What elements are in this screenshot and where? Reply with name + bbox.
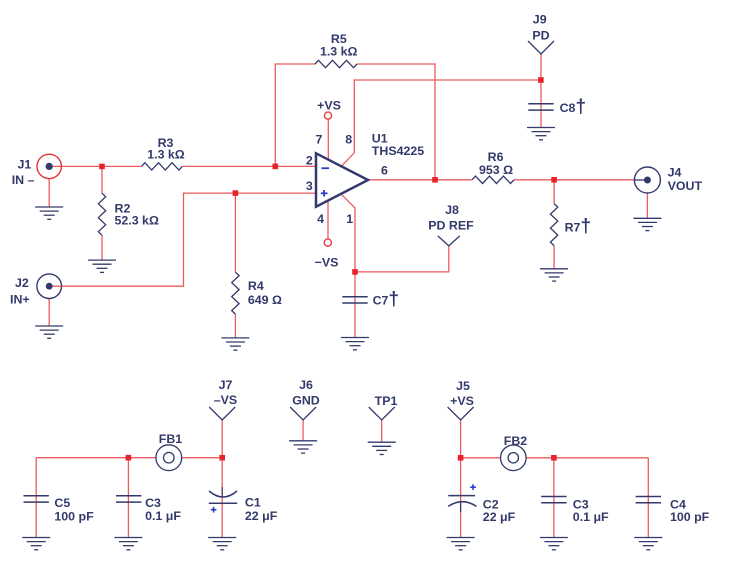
svg-text:VOUT: VOUT	[668, 179, 703, 193]
wire J9 node through C8 to ground	[540, 80, 542, 128]
svg-text:52.3 kΩ: 52.3 kΩ	[115, 214, 159, 228]
svg-text:J6: J6	[299, 378, 313, 392]
junction node J1/R2/R3	[99, 164, 105, 170]
wire J5 stub to +VS rail	[460, 420, 462, 458]
wire J7 stub to -VS rail	[221, 420, 223, 458]
wire J1 to R3 (inverting input net)	[52, 165, 142, 167]
wire J4 ground stub	[646, 193, 648, 218]
svg-text:100 pF: 100 pF	[54, 510, 94, 524]
svg-text:PD REF: PD REF	[428, 219, 474, 233]
op-amp U1 THS4225	[316, 153, 368, 206]
wire C4 leg	[647, 458, 649, 538]
svg-text:1.3 kΩ: 1.3 kΩ	[147, 148, 185, 162]
capacitor C5 100 pF	[24, 496, 49, 502]
ground below J2	[35, 326, 63, 338]
junction node rail/J7/C1	[219, 455, 225, 461]
ground below J1	[35, 207, 63, 219]
wire J6 ground stub	[302, 420, 304, 441]
wire C2 leg	[460, 458, 462, 538]
ground below TP1	[368, 442, 396, 454]
ferrite bead FB2	[501, 445, 527, 471]
wire C1 leg	[221, 458, 223, 538]
capacitor C3 0.1 uF right	[541, 497, 566, 503]
wire J9 stub	[540, 54, 542, 80]
junction node rail/C3 right	[551, 455, 557, 461]
svg-text:R6: R6	[488, 150, 504, 164]
capacitor C4 100 pF	[636, 497, 661, 503]
ground below C4	[634, 538, 662, 550]
capacitor C3 0.1 uF left	[116, 496, 141, 502]
ground below C2	[447, 538, 475, 550]
wire J8 to pin 1 node	[355, 246, 449, 272]
resistor R3 1.3 k	[142, 163, 183, 170]
wire C3 left leg	[127, 458, 129, 538]
svg-text:22 μF: 22 μF	[245, 509, 278, 523]
svg-text:+VS: +VS	[450, 394, 474, 408]
svg-text:J5: J5	[456, 379, 470, 393]
wire -VS rail right of FB1	[182, 457, 223, 459]
resistor R6 953	[472, 176, 514, 183]
wire R5 to output node	[357, 64, 435, 180]
ferrite bead FB1	[156, 445, 182, 471]
resistor R4 649	[232, 272, 239, 314]
svg-text:–VS: –VS	[214, 393, 237, 407]
connector J7 -VS header	[209, 407, 235, 420]
wire R4 to ground	[234, 314, 236, 338]
svg-text:−VS: −VS	[315, 256, 339, 270]
junction node pin1/J8/C7	[352, 269, 358, 275]
wire R3 to op-amp pin 2	[182, 165, 316, 167]
svg-text:+VS: +VS	[317, 99, 341, 113]
wire -VS rail left of FB1	[36, 457, 156, 459]
svg-text:1: 1	[346, 212, 353, 226]
wire feedback left leg to R5	[275, 64, 315, 166]
wire op-amp pin 1 through C7 to ground	[342, 195, 355, 338]
ground below J4	[633, 218, 661, 230]
wire TP1 ground stub	[381, 420, 383, 442]
-VS supply pad	[324, 239, 331, 246]
wire +VS rail left of FB2	[461, 457, 501, 459]
svg-text:1.3 kΩ: 1.3 kΩ	[320, 45, 358, 59]
capacitor C2 22 uF polarized	[448, 495, 475, 497]
+VS supply pad	[324, 112, 331, 119]
wire J2 ground stub	[48, 299, 50, 326]
svg-text:IN+: IN+	[10, 293, 30, 307]
svg-text:C5: C5	[54, 496, 70, 510]
connector J1 IN-	[37, 154, 61, 178]
svg-text:4: 4	[317, 212, 324, 226]
junction node rail/C3 left	[126, 455, 132, 461]
ground below C3 right	[540, 538, 568, 550]
capacitor C8	[528, 104, 553, 110]
ground below J6	[289, 441, 317, 453]
wire R7 to ground	[553, 246, 555, 269]
svg-text:FB1: FB1	[159, 432, 183, 446]
ground below C5	[22, 538, 50, 550]
svg-text:C1: C1	[245, 496, 261, 510]
svg-text:C8†: C8†	[560, 97, 586, 118]
svg-text:PD: PD	[532, 29, 549, 43]
svg-text:7: 7	[316, 133, 323, 147]
wire op-amp pin 8 to J9/C8 node	[342, 80, 541, 166]
svg-text:22 μF: 22 μF	[483, 510, 516, 524]
svg-text:649 Ω: 649 Ω	[248, 293, 282, 307]
test point TP1	[369, 407, 395, 420]
svg-text:0.1 μF: 0.1 μF	[145, 509, 181, 523]
svg-text:8: 8	[345, 133, 352, 147]
junction node R5/output	[432, 177, 438, 183]
junction node pin3/R4	[233, 190, 239, 196]
svg-text:953 Ω: 953 Ω	[479, 163, 513, 177]
svg-text:J9: J9	[533, 13, 547, 27]
ground below C3 left	[114, 538, 142, 550]
wire op-amp pin 4 to -VS pad	[327, 200, 329, 239]
junction node feedback tap	[273, 164, 279, 170]
svg-text:0.1 μF: 0.1 μF	[573, 510, 609, 524]
resistor R7	[550, 204, 557, 246]
connector J9 PD	[528, 41, 554, 54]
svg-text:J4: J4	[668, 166, 682, 180]
ground below C7	[341, 338, 369, 350]
capacitor C7	[342, 297, 367, 303]
wire node B to R4	[234, 193, 236, 272]
wire node A to R2	[101, 166, 103, 193]
svg-text:6: 6	[381, 164, 388, 178]
wire J1 ground stub	[48, 179, 50, 207]
svg-text:J2: J2	[15, 276, 29, 290]
wire J2 to op-amp pin 3 (non-inverting input net)	[52, 193, 316, 286]
svg-text:R7†: R7†	[565, 216, 591, 237]
svg-text:2: 2	[306, 153, 313, 167]
wire R2 to ground	[101, 235, 103, 260]
ground below R2	[88, 260, 116, 272]
connector J6 GND header	[290, 407, 316, 420]
svg-text:J7: J7	[219, 378, 233, 392]
svg-text:J8: J8	[445, 203, 459, 217]
connector J4 VOUT	[634, 167, 660, 193]
junction node rail/J5/C2	[458, 455, 464, 461]
svg-text:3: 3	[306, 179, 313, 193]
ground below C8	[527, 128, 555, 140]
wire R6 to J4	[514, 179, 634, 181]
wire C3 right leg	[553, 458, 555, 538]
resistor R2 52.3 k	[98, 193, 105, 235]
wire op-amp pin 6 output to R6	[368, 179, 472, 181]
svg-text:C3: C3	[145, 496, 161, 510]
junction node R6/R7/J4	[551, 177, 557, 183]
junction node J9/pin8/C8	[538, 77, 544, 83]
connector J8 PD REF	[438, 236, 460, 246]
capacitor C1 22 uF polarized	[209, 491, 237, 497]
svg-text:TP1: TP1	[375, 394, 398, 408]
wire +VS rail right of FB2	[526, 457, 648, 459]
resistor R5 1.3 k feedback	[315, 60, 357, 67]
ground below R7	[540, 269, 568, 281]
svg-text:R4: R4	[248, 279, 264, 293]
svg-text:GND: GND	[292, 393, 320, 407]
svg-text:J1: J1	[18, 158, 32, 172]
svg-text:THS4225: THS4225	[372, 144, 424, 158]
svg-text:IN –: IN –	[12, 173, 35, 187]
wire op-amp pin 7 to +VS pad	[327, 119, 329, 160]
svg-text:FB2: FB2	[504, 434, 528, 448]
wire output node to R7	[553, 180, 555, 204]
connector J2 IN+	[37, 274, 62, 299]
connector J5 +VS header	[448, 407, 474, 420]
ground below R4	[221, 338, 249, 350]
svg-text:C7†: C7†	[373, 289, 399, 310]
wire C5 leg	[35, 458, 37, 538]
svg-text:100 pF: 100 pF	[670, 510, 710, 524]
ground below C1	[208, 538, 236, 550]
